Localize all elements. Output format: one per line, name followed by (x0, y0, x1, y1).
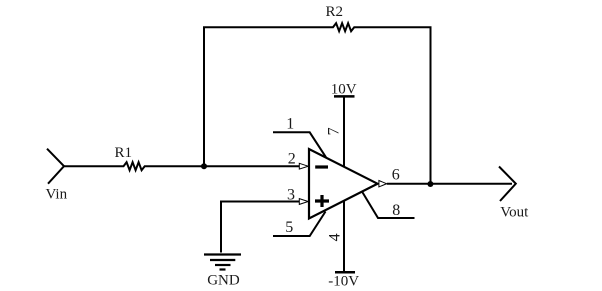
svg-text:10V: 10V (331, 82, 357, 98)
svg-text:Vin: Vin (46, 187, 68, 203)
svg-text:6: 6 (392, 167, 400, 184)
svg-text:7: 7 (326, 127, 343, 135)
svg-text:R1: R1 (115, 145, 133, 161)
svg-text:3: 3 (287, 187, 295, 204)
svg-text:GND: GND (207, 273, 240, 289)
svg-text:Vout: Vout (500, 204, 529, 220)
svg-text:2: 2 (288, 150, 296, 167)
svg-text:5: 5 (285, 219, 293, 236)
svg-text:4: 4 (327, 233, 344, 241)
svg-text:8: 8 (392, 202, 400, 219)
svg-text:1: 1 (286, 116, 294, 133)
svg-text:R2: R2 (326, 4, 344, 20)
svg-text:-10V: -10V (328, 273, 359, 289)
